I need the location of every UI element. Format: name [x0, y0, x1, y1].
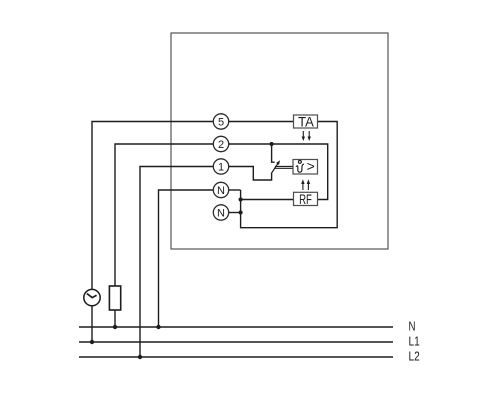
svg-text:TA: TA — [298, 114, 314, 129]
svg-text:5: 5 — [218, 116, 224, 128]
svg-text:L1: L1 — [409, 334, 420, 349]
svg-text:>: > — [307, 158, 315, 174]
svg-text:N: N — [217, 185, 225, 197]
svg-text:1: 1 — [218, 161, 224, 173]
svg-text:2: 2 — [218, 139, 224, 151]
svg-text:L2: L2 — [409, 349, 420, 364]
svg-text:N: N — [409, 319, 416, 334]
svg-text:N: N — [217, 207, 225, 219]
svg-text:RF: RF — [299, 192, 312, 207]
